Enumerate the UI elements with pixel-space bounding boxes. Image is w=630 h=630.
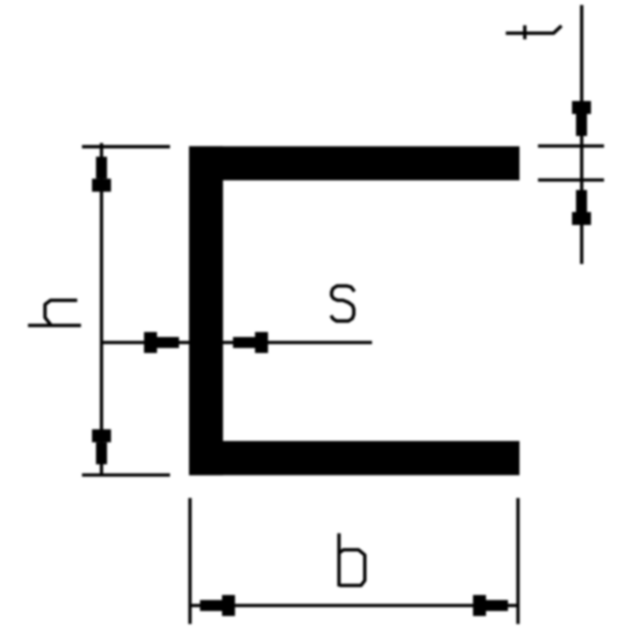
arrowhead s left: [233, 337, 255, 348]
dimension line h (vertical): [100, 143, 103, 476]
label h (rotated): [28, 324, 81, 327]
label b: [337, 533, 340, 586]
tick top of h: [82, 145, 170, 148]
tick top of t: [538, 144, 604, 147]
U-profile top flange: [189, 146, 520, 180]
U-profile web: [189, 146, 223, 475]
extension line b left: [188, 498, 191, 624]
arrowhead b left: [200, 600, 222, 611]
dimension line b (horizontal): [190, 604, 518, 607]
U-profile bottom flange: [189, 441, 520, 475]
label t (rotated): [506, 26, 562, 33]
tick bottom of h: [82, 473, 170, 476]
label s: [331, 286, 355, 321]
arrowhead h up: [96, 157, 107, 179]
arrowhead t down: [572, 101, 591, 114]
dimension line t (vertical): [580, 5, 583, 264]
extension line b right: [516, 498, 519, 624]
arrowhead t up: [576, 190, 587, 212]
dimension line s (horizontal): [102, 341, 373, 344]
arrowhead s right: [144, 332, 157, 353]
tick bottom of t: [538, 178, 604, 181]
arrowhead b right: [473, 595, 486, 616]
arrowhead h down: [92, 429, 111, 442]
